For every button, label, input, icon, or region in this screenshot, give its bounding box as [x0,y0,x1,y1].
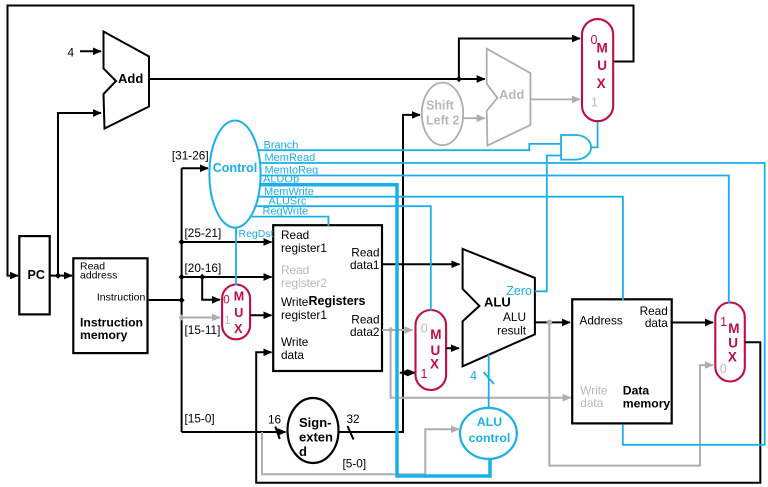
control oval [209,121,260,228]
svg-text:X: X [234,322,243,336]
register PC [19,236,49,314]
svg-text:exten: exten [299,430,333,445]
svg-text:data: data [281,348,304,362]
mux ALUSrc (crimson) [416,310,447,390]
svg-text:ALU: ALU [503,310,526,324]
sign extender oval [288,398,339,463]
node gray junction [15-11] [179,314,185,321]
svg-text:Read: Read [281,263,309,277]
svg-text:M: M [234,289,244,303]
wire instruction [15-0] to Sign-extend [182,431,286,433]
slash 16-bit [275,427,280,440]
svg-text:X: X [728,350,737,365]
svg-text:4: 4 [68,46,75,60]
svg-text:[15-11]: [15-11] [185,323,221,337]
node gray junction ALU result [547,320,553,326]
node junction on [20-16] branch [199,274,205,281]
wire RegDst MUX output to Write register [250,314,272,316]
svg-text:control: control [469,431,511,445]
wire Add output (PC+4) to junction [149,78,459,80]
svg-text:0: 0 [421,321,428,335]
svg-text:4: 4 [470,369,477,383]
svg-text:RegDst: RegDst [239,228,274,240]
wire ALU result (inactive) around to right MUX input 0 [549,322,713,465]
svg-text:1: 1 [421,367,428,381]
svg-text:[31-26]: [31-26] [172,148,209,162]
svg-text:register1: register1 [281,241,327,255]
svg-text:Read: Read [281,228,309,242]
wire PC-source loop from top-right MUX output to PC input [8,6,634,276]
svg-text:data1: data1 [350,258,380,272]
wire [5-0] funct (inactive) to ALU control [262,429,459,474]
wire Read data to right MUX input 1 [672,322,713,324]
wire sign-extended value into ALUSrc MUX input 1 (double arrow) [400,372,416,374]
svg-text:M: M [728,321,739,336]
svg-text:Address: Address [580,313,623,327]
svg-text:X: X [430,357,439,372]
wire Read data2 (inactive) down to Data memory Write data [391,330,571,398]
svg-text:Sign-: Sign- [299,415,332,430]
svg-text:[15-0]: [15-0] [185,412,215,426]
svg-text:0: 0 [223,295,229,307]
svg-text:register2: register2 [281,276,327,290]
wire [20-16] down into RegDst MUX input 0 [202,277,220,300]
mux PCSrc (crimson, top right) [582,19,613,121]
svg-text:1: 1 [720,315,727,329]
wire instruction [31-26] into Control [182,167,208,169]
svg-text:Add: Add [499,87,524,102]
node junction [20-16] [179,274,185,281]
svg-text:16: 16 [268,413,282,427]
node junction [25-21] [179,239,185,246]
shifter Shift Left 2 (inactive) [422,83,463,146]
wire Instruction output to vertical distribution bus [149,299,182,301]
slash 32-bit [348,426,354,440]
svg-text:data: data [645,316,668,330]
wire constant 4 into Add upper input [80,50,101,52]
svg-text:address: address [80,269,117,281]
wire Read data1 to ALU input 1 [382,263,460,265]
mux RegDst (crimson) [222,285,250,340]
instruction memory box [73,258,147,353]
alu control oval [460,408,517,459]
svg-text:Control: Control [213,161,257,175]
svg-text:Left 2: Left 2 [426,114,459,128]
svg-text:ALU: ALU [477,415,502,429]
svg-text:U: U [234,306,243,320]
node PC output junction [55,272,61,279]
node instruction junction [179,297,185,304]
svg-text:M: M [430,327,441,342]
wire Sign-extend output to riser [339,431,405,433]
svg-text:memory: memory [623,396,671,410]
svg-text:[20-16]: [20-16] [185,261,222,275]
slash 4-bit [484,372,495,384]
registers box [273,225,382,371]
svg-text:memory: memory [80,328,128,342]
svg-text:Registers: Registers [309,294,366,308]
wire branch Add output (inactive) to top MUX input 1 [530,98,580,100]
wire ALUSrc MUX output to ALU input 2 [446,347,459,349]
svg-text:32: 32 [347,412,360,426]
wire ALU control to ALU operation input [488,355,490,409]
wire write-back from right MUX output to Registers Write data [256,342,760,482]
wire PC+4 into gray Add upper input [459,78,485,80]
alu ALU [463,249,535,366]
wire ALU result to Data memory Address [535,321,570,323]
wire Read data2 (inactive) to ALUSrc MUX input 0 [382,329,413,331]
svg-text:Shift: Shift [426,98,455,112]
svg-text:M: M [597,41,608,56]
wire instruction vertical bus [181,168,183,432]
svg-text:[25-21]: [25-21] [185,226,222,240]
wire sign-extended riser up to Shift Left 2 [403,115,420,432]
svg-text:result: result [497,323,527,337]
wire Zero to AND gate [535,156,560,292]
wire instruction [15-11] (inactive) to RegDst MUX input 1 [182,317,220,319]
wire PC to Instruction memory Read address [50,275,72,277]
wire instruction [20-16] to Read register2 [182,276,272,278]
wire PC value up to Add lower input [58,113,101,276]
svg-text:1: 1 [591,95,598,109]
svg-text:d: d [299,444,307,459]
svg-text:Instruction: Instruction [97,292,146,304]
svg-text:1: 1 [224,315,230,327]
svg-text:U: U [597,58,607,73]
mux MemtoReg (crimson) [715,303,745,382]
svg-text:data2: data2 [350,325,380,339]
data memory box [572,299,672,423]
wire AND output up to PCSrc MUX select [590,122,597,147]
node gray junction read data2 [388,327,394,334]
svg-text:Zero: Zero [506,284,532,298]
svg-text:register1: register1 [281,308,327,322]
svg-text:X: X [597,76,606,91]
wire instruction [25-21] to Read register1 [182,241,272,243]
wire PC+4 to top MUX input 0 [459,39,580,80]
adder branch Add (inactive) [487,49,531,146]
adder Add (PC+4) [104,32,150,129]
node PC+4 junction [456,76,462,83]
svg-text:PC: PC [28,268,45,282]
svg-text:data: data [580,396,603,410]
svg-text:Add: Add [118,71,143,86]
wire Shift Left 2 output (inactive) to gray Add [463,117,485,119]
svg-text:0: 0 [720,362,727,376]
svg-text:[5-0]: [5-0] [343,457,367,471]
and gate (branch AND zero) [561,135,591,160]
svg-text:U: U [728,336,738,351]
